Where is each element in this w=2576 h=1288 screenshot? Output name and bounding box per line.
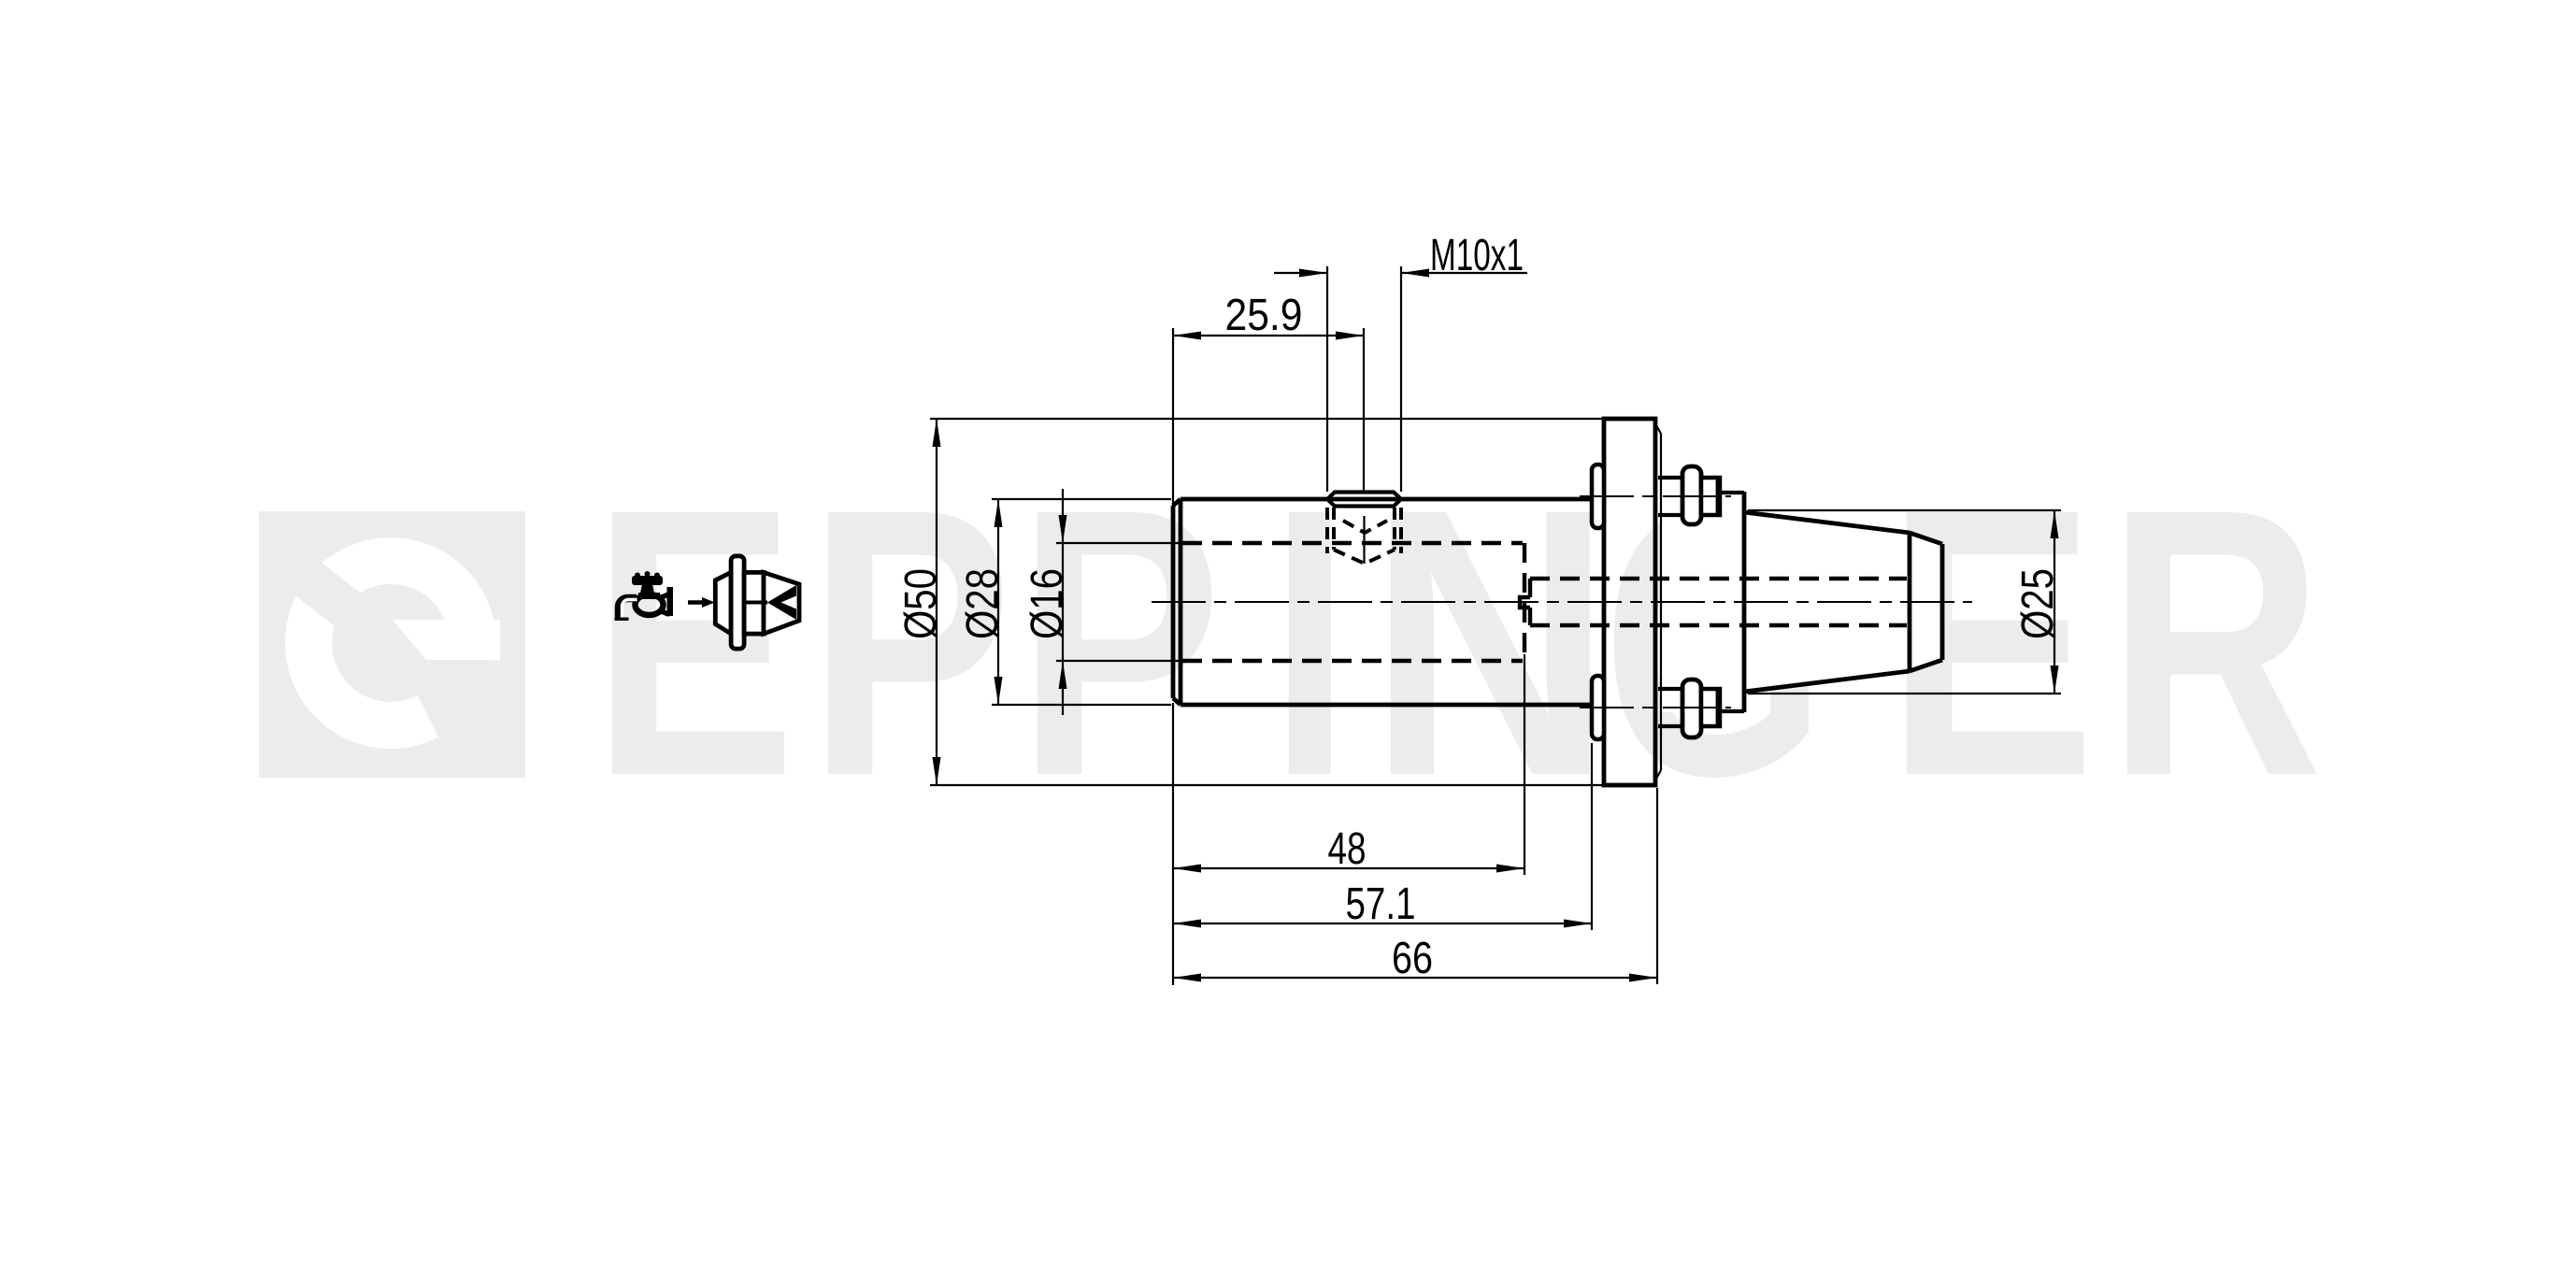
white fill of spindle neck and taper cone: [1661, 492, 1942, 712]
svg-text:E: E: [592, 431, 796, 855]
svg-text:I: I: [1269, 431, 1351, 855]
svg-text:P: P: [1017, 431, 1223, 855]
svg-text:48: 48: [1328, 824, 1367, 874]
collet chuck icon: [688, 556, 799, 649]
bolt top (stud, washer, nut): [1580, 466, 1731, 524]
svg-text:N: N: [1368, 431, 1612, 855]
svg-text:Ø50: Ø50: [896, 568, 946, 639]
centerline main axis: [1152, 601, 1972, 603]
watermark text EPPINGER: [592, 431, 2323, 855]
dimension M10x1: [1274, 231, 1527, 492]
M10 thread hole: [1327, 493, 1401, 565]
Ø16 bore hidden lines: [1182, 543, 1524, 661]
dimension Ø28: [958, 499, 1171, 705]
taper cone: [1744, 512, 1942, 692]
coolant faucet icon: [615, 571, 674, 621]
svg-text:Ø28: Ø28: [958, 568, 1008, 639]
dimension Ø25: [1748, 510, 2063, 694]
drawbar thread bore hidden lines: [1520, 579, 1907, 625]
flange Ø50: [1604, 419, 1655, 785]
dimension Ø50: [896, 419, 1604, 785]
bolt bottom (stud, washer, nut): [1580, 680, 1731, 737]
dimension 48: [1173, 654, 1524, 985]
dimension 25.9: [1173, 291, 1364, 509]
hub hidden edge behind flange: [1660, 434, 1662, 770]
front stud end bottom: [1592, 676, 1604, 739]
dimension Ø16: [1023, 489, 1180, 715]
svg-text:66: 66: [1392, 934, 1433, 983]
watermark logo tile: [259, 511, 525, 778]
front stud end top: [1592, 465, 1604, 528]
dimension 57.1: [1173, 743, 1592, 930]
main cylinder body Ø28: [1173, 499, 1604, 705]
dimension 66: [1173, 788, 1657, 984]
svg-text:M10x1: M10x1: [1430, 231, 1524, 280]
spindle neck section: [1721, 492, 1744, 712]
svg-text:P: P: [808, 431, 1013, 855]
svg-text:Ø25: Ø25: [2013, 568, 2063, 639]
svg-text:57.1: 57.1: [1346, 880, 1416, 929]
svg-text:R: R: [2108, 431, 2324, 855]
svg-text:25.9: 25.9: [1225, 291, 1303, 340]
svg-text:Ø16: Ø16: [1023, 568, 1072, 639]
